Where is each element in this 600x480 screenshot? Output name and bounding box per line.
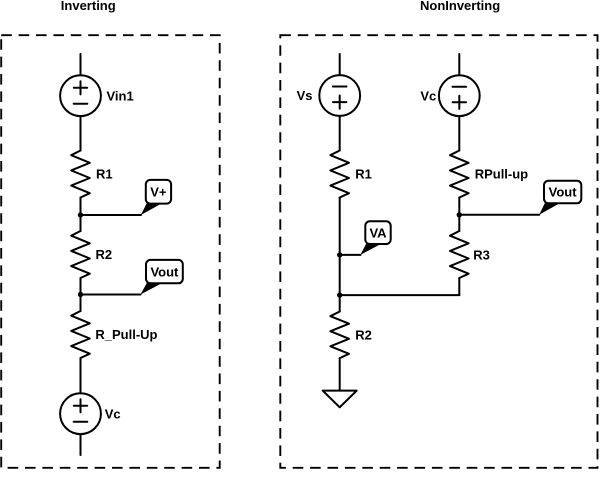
svg-text:NonInverting: NonInverting xyxy=(420,0,500,13)
svg-text:V+: V+ xyxy=(150,184,167,199)
svg-text:Vout: Vout xyxy=(549,185,578,200)
svg-text:R2: R2 xyxy=(355,327,372,342)
svg-text:Vc: Vc xyxy=(105,406,121,421)
svg-text:R_Pull-Up: R_Pull-Up xyxy=(95,327,157,342)
svg-text:Vc: Vc xyxy=(420,88,436,103)
svg-text:R2: R2 xyxy=(96,247,113,262)
svg-text:VA: VA xyxy=(369,225,387,240)
svg-text:Vin1: Vin1 xyxy=(107,88,134,103)
svg-text:Vout: Vout xyxy=(150,264,179,279)
svg-text:RPull-up: RPull-up xyxy=(475,167,528,182)
svg-text:R3: R3 xyxy=(473,247,490,262)
svg-text:Vs: Vs xyxy=(297,88,313,103)
svg-text:R1: R1 xyxy=(355,167,372,182)
svg-text:Inverting: Inverting xyxy=(61,0,116,13)
svg-text:R1: R1 xyxy=(96,167,113,182)
